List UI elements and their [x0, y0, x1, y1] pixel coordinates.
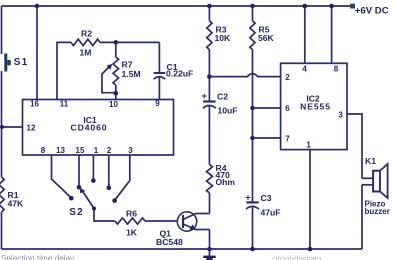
wire R5 down to C3 [252, 50, 254, 203]
svg-text:16: 16 [30, 99, 39, 108]
node pin16 junction on top rail [35, 4, 40, 9]
svg-text:circuit-diagram: circuit-diagram [272, 254, 321, 260]
wire pin2 with hop over R5 line [209, 74, 280, 77]
node S2 contact d [107, 186, 112, 191]
svg-text:1.5M: 1.5M [122, 69, 141, 79]
svg-text:NE555: NE555 [300, 101, 331, 111]
node pin4 junction [303, 4, 308, 9]
svg-text:1M: 1M [80, 48, 92, 58]
svg-text:2: 2 [107, 146, 112, 155]
svg-text:R2: R2 [81, 29, 92, 39]
svg-text:R6: R6 [126, 209, 137, 219]
wire S2 pole to R6 [94, 209, 115, 222]
resistor R7 preset [102, 42, 141, 100]
svg-text:3: 3 [338, 111, 343, 120]
svg-text:S1: S1 [14, 57, 28, 68]
wire top supply rail [2, 5, 353, 7]
IC U1 CD4060 box [23, 100, 174, 156]
node S2 contact b [77, 185, 82, 190]
IC U2 NE555 box [281, 63, 347, 149]
svg-text:6: 6 [285, 104, 290, 113]
wire R6 to Q1 base [145, 220, 177, 222]
switch S2 selector [52, 155, 130, 218]
wire pin 8 to rail [331, 6, 333, 63]
wire R2 right to C1 top [100, 41, 159, 43]
svg-text:S2: S2 [69, 207, 83, 218]
svg-text:11: 11 [60, 99, 69, 108]
node R2/R7 junction [114, 40, 119, 45]
node pin12/rail junction [0, 125, 4, 129]
transistor Q1 BC548 [156, 212, 210, 247]
node pin6 junction [250, 106, 255, 111]
node pin8 junction [329, 4, 334, 9]
wire pin 1 stub [92, 155, 94, 179]
node pin7 junction [250, 136, 255, 141]
node S2 contact e [112, 198, 117, 203]
IC2 labels [300, 93, 331, 111]
wire left rail upper segment [1, 6, 3, 54]
wire pin 3 to buzzer [347, 114, 362, 178]
IC1 labels [71, 115, 108, 133]
wire rail to R5 [252, 6, 254, 21]
svg-text:R7: R7 [122, 60, 133, 70]
resistor R2 [71, 29, 100, 58]
wire pin 16 drop [36, 6, 38, 100]
resistor R5 [250, 21, 275, 50]
svg-text:4: 4 [302, 65, 307, 74]
svg-text:Selection time delay: Selection time delay [1, 254, 75, 260]
svg-text:0.22uF: 0.22uF [166, 68, 193, 78]
node R5 top junction [250, 4, 255, 9]
wire pin 13 stub [52, 155, 71, 197]
svg-text:8: 8 [334, 65, 339, 74]
node pin2 branch junction [207, 74, 212, 79]
resistor R6 [115, 209, 145, 238]
svg-text:9: 9 [155, 99, 160, 108]
svg-text:C3: C3 [261, 193, 272, 203]
wire pin 11 up and over to R2 [57, 42, 71, 100]
node pin1/rail junction [308, 247, 313, 252]
wire C3 to ground rail [252, 207, 254, 249]
svg-text:7: 7 [285, 135, 290, 144]
svg-text:+: + [202, 90, 208, 101]
capacitor C3 [245, 192, 280, 218]
svg-text:13: 13 [56, 146, 65, 155]
wire Q1 emitter to ground rail [209, 230, 211, 250]
svg-text:3: 3 [128, 146, 133, 155]
capacitor C2 [202, 90, 238, 115]
S2 wiper arm [83, 192, 94, 209]
svg-text:buzzer: buzzer [365, 207, 390, 216]
wire pin7 [253, 137, 281, 139]
node R7 bottom junction [114, 91, 119, 96]
node S2 contact a [69, 196, 74, 201]
svg-text:8: 8 [41, 146, 46, 155]
wire bottom ground rail [2, 248, 363, 250]
svg-text:47K: 47K [8, 198, 25, 208]
svg-text:10K: 10K [215, 33, 232, 43]
svg-text:15: 15 [76, 146, 85, 155]
svg-text:C2: C2 [217, 92, 228, 102]
wire pin 3 stub [116, 155, 130, 199]
wire pin 12 to left rail [2, 126, 23, 128]
svg-text:2: 2 [285, 73, 290, 82]
svg-text:BC548: BC548 [156, 237, 183, 247]
ground symbol [203, 249, 215, 259]
node emitter/rail junction [207, 247, 212, 252]
wire pin 1 to ground rail [309, 150, 311, 249]
wire R4 to Q1 collector [209, 193, 211, 214]
wire left rail lower segment [1, 212, 3, 249]
svg-text:+6V DC: +6V DC [355, 6, 389, 17]
svg-text:1K: 1K [126, 228, 138, 238]
wire pin 4 to rail [304, 6, 306, 63]
wire C2 to R4 [208, 106, 210, 164]
resistor R4 [207, 163, 236, 193]
svg-text:56K: 56K [258, 33, 275, 43]
wire pin 15 stub [78, 155, 80, 186]
svg-text:1: 1 [94, 146, 99, 155]
svg-text:1: 1 [306, 141, 311, 150]
switch S1 [4, 54, 28, 72]
svg-text:10: 10 [109, 100, 118, 109]
svg-text:Ohm: Ohm [216, 177, 236, 187]
node S2 contact c [91, 178, 96, 183]
svg-text:+: + [245, 192, 251, 203]
wire rail to R3 [208, 6, 210, 21]
svg-text:47uF: 47uF [261, 208, 281, 218]
buzzer K1 piezo [362, 156, 390, 249]
node R3 top junction [207, 4, 212, 9]
svg-text:10uF: 10uF [218, 106, 238, 116]
node C3/rail junction [250, 247, 255, 252]
capacitor C1 [154, 42, 194, 100]
svg-text:K1: K1 [365, 156, 376, 166]
svg-text:12: 12 [27, 124, 36, 133]
resistor R3 [207, 21, 231, 50]
resistor R1 [0, 177, 24, 212]
svg-text:CD4060: CD4060 [71, 123, 108, 133]
supply terminal +6V DC [350, 4, 389, 17]
wire pin 2 stub [108, 155, 110, 186]
wire left rail mid segment [1, 71, 3, 177]
wire R3 to C2 [208, 50, 210, 102]
wire pin6 [253, 107, 281, 109]
